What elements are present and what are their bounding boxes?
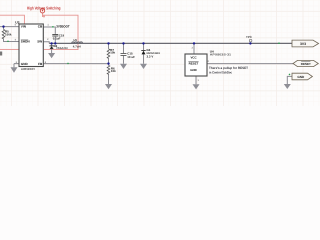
svg-text:GND: GND	[190, 68, 196, 72]
svg-text:10k: 10k	[111, 69, 116, 73]
svg-text:U3: U3	[15, 20, 19, 24]
svg-text:RESET: RESET	[301, 62, 311, 66]
svg-text:3V3BOOT: 3V3BOOT	[56, 25, 69, 29]
svg-text:L5: L5	[74, 38, 78, 42]
svg-text:SHDN: SHDN	[21, 40, 31, 44]
svg-text:VSSA210: VSSA210	[56, 47, 68, 50]
svg-text:0.1uF: 0.1uF	[53, 37, 61, 41]
svg-text:LMR16006Y: LMR16006Y	[21, 67, 35, 71]
svg-text:3V3: 3V3	[300, 42, 306, 46]
svg-text:APX803S-31: APX803S-31	[210, 53, 232, 57]
svg-text:VCC: VCC	[190, 55, 197, 59]
svg-text:4.7uH: 4.7uH	[73, 45, 81, 49]
svg-text:3.3 V: 3.3 V	[147, 54, 154, 58]
svg-text:GND: GND	[297, 75, 305, 79]
svg-text:100k: 100k	[5, 33, 12, 37]
svg-text:in Control SchDoc: in Control SchDoc	[209, 70, 232, 74]
svg-text:VIN: VIN	[21, 25, 27, 29]
svg-text:RESET: RESET	[189, 61, 199, 65]
svg-text:TP3: TP3	[246, 35, 252, 39]
svg-text:GND: GND	[21, 62, 29, 66]
svg-text:10 uF: 10 uF	[127, 55, 135, 59]
svg-text:SW: SW	[37, 40, 42, 44]
svg-text:10k: 10k	[110, 51, 115, 55]
svg-text:High Voltage Switching: High Voltage Switching	[27, 5, 61, 10]
svg-text:CB: CB	[38, 25, 43, 29]
